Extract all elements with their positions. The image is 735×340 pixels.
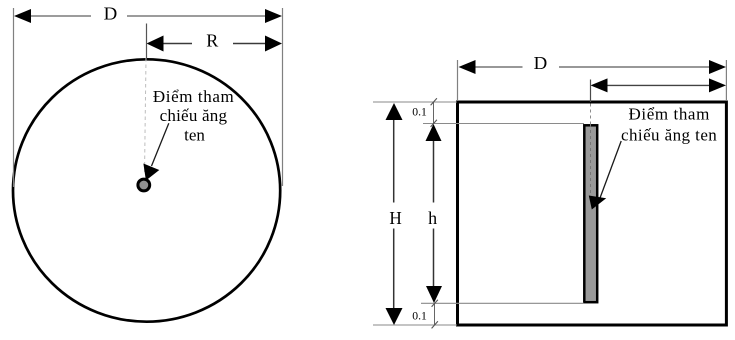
D extension line right (top view) <box>282 8 284 186</box>
D extension line left (top view) <box>13 8 15 187</box>
tick mark bottom upper <box>432 300 438 307</box>
0.1 gap line top <box>433 102 435 124</box>
antenna bar (side view) <box>584 125 597 302</box>
antenna axis dashed line (side view) <box>590 80 592 103</box>
top edge extension line (side view) <box>373 101 457 103</box>
tick mark top upper <box>431 98 437 105</box>
D dimension line (side view) <box>474 66 710 68</box>
svg-text:0.1: 0.1 <box>412 310 427 322</box>
center axis line dashed inside circle <box>145 58 147 174</box>
R dimension line (top view) <box>161 43 267 45</box>
tick mark top lower <box>431 120 437 127</box>
svg-text:ten: ten <box>184 126 205 145</box>
bottom edge extension line (side view) <box>373 324 457 326</box>
svg-text:D: D <box>534 53 548 73</box>
svg-text:Điểm tham: Điểm tham <box>153 87 234 106</box>
svg-text:Điểm tham: Điểm tham <box>629 105 710 124</box>
svg-text:h: h <box>428 208 437 228</box>
enclosure box (side view) <box>458 102 727 325</box>
svg-text:R: R <box>206 30 218 50</box>
callout arrow (side view) <box>600 141 621 198</box>
center axis line solid above circle <box>146 24 148 59</box>
H dimension line <box>393 119 395 310</box>
0.1 gap line bottom <box>434 303 436 325</box>
offset dimension line (side view) <box>606 84 710 86</box>
D extension line left (side view) <box>457 60 459 100</box>
antenna reference dot (top view) <box>138 179 150 191</box>
antenna bottom line (side view) <box>421 302 584 304</box>
svg-text:0.1: 0.1 <box>412 106 427 118</box>
circle outline (top view) <box>13 59 280 321</box>
h dimension line <box>433 140 435 288</box>
antenna top line (side view) <box>423 123 584 125</box>
svg-text:D: D <box>104 3 118 23</box>
svg-text:chiếu ăng: chiếu ăng <box>160 106 228 125</box>
D dimension line (top view) <box>29 15 267 17</box>
svg-text:chiếu ăng ten: chiếu ăng ten <box>621 126 717 145</box>
svg-text:H: H <box>389 208 401 228</box>
callout arrow (top view) <box>152 123 169 166</box>
D extension line right (side view) <box>725 60 727 100</box>
tick mark bottom lower <box>432 321 438 328</box>
